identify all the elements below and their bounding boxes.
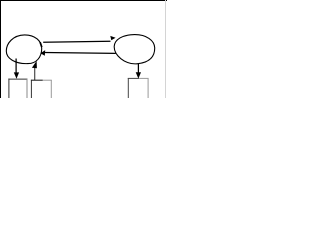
queue rect R3 [128, 78, 148, 98]
arrowhead down into rect R3 [136, 72, 141, 78]
arrowhead bottom-left into E1 [40, 50, 45, 56]
wire down arrow from E2 to right queue [137, 64, 139, 73]
queue rect R1 [9, 79, 27, 99]
wire up arrow from rect R2 to E1 [34, 68, 36, 81]
wire top arrow line E1 to E2 [43, 40, 110, 43]
wire bottom arrow line E2 to E1 [45, 52, 116, 55]
arrowhead down into rect R1 [14, 72, 19, 78]
process ellipse E2 (right) [114, 35, 155, 64]
arrowhead stub at E1 right edge [40, 42, 42, 47]
arrowhead top-right into E2 [110, 36, 115, 40]
process ellipse E1 (left) [6, 35, 41, 64]
border right [165, 0, 167, 98]
wire down arrow from E1 to left queue [15, 59, 17, 75]
queue rect R2 [31, 80, 51, 100]
border top [0, 0, 167, 2]
border left [0, 0, 2, 98]
arrowhead up into E1 [32, 61, 37, 68]
